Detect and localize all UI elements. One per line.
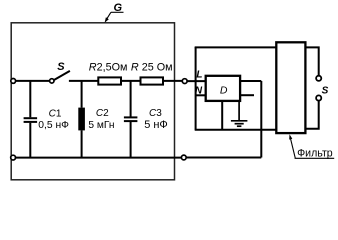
svg-text:5 нФ: 5 нФ (144, 119, 168, 131)
wire N: loop vertical to D box (196, 94, 206, 96)
switch S blade (54, 71, 70, 80)
svg-text:0,5 нФ: 0,5 нФ (38, 120, 69, 131)
wire D bottom to loop (221, 101, 223, 130)
label Фильтр (289, 134, 334, 159)
wire D output stub (240, 94, 254, 96)
svg-text:L: L (196, 70, 202, 81)
svg-text:S: S (57, 61, 65, 73)
terminal top-left (11, 79, 16, 84)
wire switch to resistor R2,5 (69, 80, 98, 82)
label G (105, 2, 124, 23)
filter box (276, 42, 305, 133)
inductor C2 branch wire upper (81, 81, 83, 108)
inductor C2 branch wire lower (81, 130, 83, 157)
capacitor C1 branch wire lower (29, 123, 31, 158)
wire D output top (240, 80, 261, 82)
terminal switch S lower (316, 95, 321, 100)
resistor R 25 Ом (141, 77, 164, 84)
wire loop left vertical (195, 47, 197, 130)
terminal switch S upper (316, 76, 321, 81)
wire filter right bottom (305, 101, 318, 129)
wire L: terminal to D box (187, 80, 206, 82)
svg-text:D: D (220, 85, 228, 97)
svg-text:C1: C1 (49, 108, 62, 119)
svg-text:S: S (322, 85, 329, 96)
capacitor C3 (124, 116, 137, 118)
terminal bottom-left (11, 155, 16, 160)
capacitor C3 branch wire lower (130, 122, 132, 158)
capacitor C1 (24, 117, 37, 119)
terminal bottom-right (181, 155, 186, 160)
switch S pivot contact (50, 79, 54, 83)
wire D output vertical down (260, 81, 262, 158)
svg-text:R2,5Ом: R2,5Ом (89, 62, 128, 74)
wire between resistors (121, 80, 141, 82)
coupling device box D (206, 76, 240, 101)
svg-text:R 25 Ом: R 25 Ом (131, 62, 173, 74)
wire filter right top (305, 47, 318, 75)
svg-text:Фильтр: Фильтр (297, 147, 333, 159)
wire top-left to switch S (16, 80, 49, 82)
bottom bus wire (16, 157, 182, 159)
resistor R 2,5 Ом (98, 77, 121, 84)
terminal top-right (182, 79, 187, 84)
capacitor C3 branch wire upper (130, 81, 132, 117)
inductor C2 (solid bar) (78, 108, 85, 131)
generator box G (11, 23, 174, 180)
wire loop top horizontal to filter (195, 46, 277, 48)
wire loop bottom horizontal to filter (195, 129, 277, 131)
capacitor C1 branch wire upper (29, 81, 31, 117)
wire bottom-right terminal to vertical (186, 157, 261, 159)
svg-text:5 мГн: 5 мГн (88, 120, 114, 131)
svg-text:C2: C2 (96, 108, 109, 119)
wire R25 to top-right terminal (163, 80, 182, 82)
svg-text:C3: C3 (149, 108, 162, 119)
ground (231, 101, 248, 126)
